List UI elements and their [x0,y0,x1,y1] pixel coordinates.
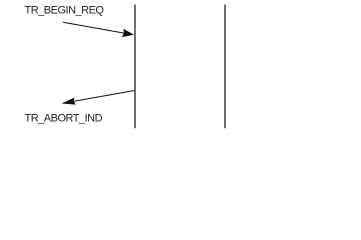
message arrow TR_ABORT_IND shaft [71,91,135,102]
message arrow TR_BEGIN_REQ shaft [63,22,127,33]
lifeline 2 (right vertical line) [224,5,226,129]
svg-text:TR_ABORT_IND: TR_ABORT_IND [25,112,103,124]
lifeline 1 (left vertical line) [134,5,136,129]
message arrow TR_BEGIN_REQ head [122,29,134,37]
svg-text:TR_BEGIN_REQ: TR_BEGIN_REQ [25,4,105,16]
message arrow TR_ABORT_IND head [62,98,76,105]
